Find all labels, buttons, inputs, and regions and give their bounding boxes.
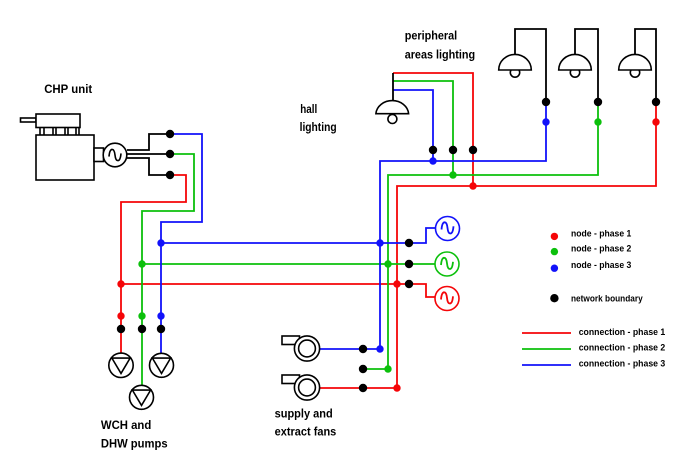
svg-text:connection - phase 1: connection - phase 1 <box>579 327 666 338</box>
svg-text:DHW pumps: DHW pumps <box>101 437 168 451</box>
svg-text:peripheral: peripheral <box>405 29 458 43</box>
svg-text:hall: hall <box>300 102 317 116</box>
svg-text:lighting: lighting <box>300 120 337 134</box>
svg-text:node - phase 2: node - phase 2 <box>571 244 631 255</box>
svg-text:WCH and: WCH and <box>101 418 151 432</box>
svg-text:node - phase 1: node - phase 1 <box>571 228 632 239</box>
svg-text:node - phase 3: node - phase 3 <box>571 260 631 271</box>
svg-text:extract fans: extract fans <box>275 425 337 439</box>
svg-text:network boundary: network boundary <box>571 293 643 304</box>
svg-text:connection - phase 2: connection - phase 2 <box>579 343 666 354</box>
svg-text:CHP unit: CHP unit <box>44 82 92 96</box>
svg-text:supply and: supply and <box>275 406 333 420</box>
svg-text:areas lighting: areas lighting <box>405 47 475 61</box>
svg-text:connection - phase 3: connection - phase 3 <box>579 358 666 369</box>
